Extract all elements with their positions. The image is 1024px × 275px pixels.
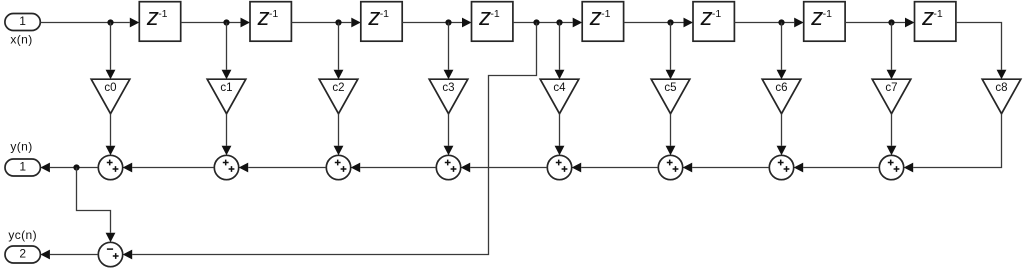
wire D7 to D8	[845, 18, 914, 28]
delay block D3 (z^-1)	[361, 2, 402, 42]
junction node yc feedback branch	[533, 19, 539, 25]
junction node tap6	[667, 19, 673, 25]
wire sum S8 to sum S7	[794, 163, 880, 173]
gain c1 (triangle)	[207, 79, 246, 114]
wire gain c1 to sum S2	[222, 114, 232, 156]
wire sum S2 to sum S1	[123, 163, 215, 173]
gain c0 (triangle)	[91, 79, 130, 114]
svg-text:c4: c4	[553, 82, 566, 94]
wire y(n) branch to sum S9 top input	[77, 168, 116, 243]
svg-text:-1: -1	[490, 8, 499, 20]
svg-text:z: z	[478, 4, 491, 31]
gain c5 (triangle)	[651, 79, 690, 114]
svg-text:z: z	[589, 4, 602, 31]
wire D1 to D2	[181, 18, 250, 28]
wire gain c8 to sum S8	[904, 114, 1002, 173]
svg-text:z: z	[700, 4, 713, 31]
wire tap8 to gain c7	[887, 23, 897, 80]
svg-text:c0: c0	[104, 82, 116, 94]
svg-text:-1: -1	[269, 8, 278, 20]
junction node tap2	[223, 19, 229, 25]
sum block S1 (+ +)	[98, 155, 122, 179]
wire tap2 to gain c1	[222, 23, 232, 80]
wire D6 to D7	[734, 18, 803, 28]
wire tap1 to gain c0	[106, 23, 116, 80]
delay block D4 (z^-1)	[472, 2, 513, 42]
wire yc feedback (tap to sum S9 right input)	[123, 23, 537, 260]
delay block D8 (z^-1)	[915, 2, 956, 42]
svg-text:z: z	[921, 4, 934, 31]
sum block S2 (+ +)	[214, 155, 238, 179]
svg-text:c7: c7	[885, 82, 897, 94]
wire tap7 to gain c6	[777, 23, 787, 80]
wire gain c3 to sum S4	[444, 114, 454, 156]
sum block S6 (+ +)	[658, 155, 682, 179]
wire gain c0 to sum S1	[106, 114, 116, 156]
svg-text:c3: c3	[442, 82, 454, 94]
label yc(n)	[8, 228, 37, 242]
svg-text:c6: c6	[775, 82, 787, 94]
wire sum S9 to yc(n) port	[40, 250, 98, 260]
sum block S7 (+ +)	[769, 155, 793, 179]
junction node y(n) branch	[73, 164, 79, 170]
wire tap4 to gain c3	[444, 23, 454, 80]
svg-text:-1: -1	[712, 8, 721, 20]
svg-text:-1: -1	[380, 8, 389, 20]
gain c3 (triangle)	[429, 79, 468, 114]
wire D4 to D5	[513, 18, 582, 28]
sum block S5 (+ +)	[547, 155, 571, 179]
delay block D5 (z^-1)	[582, 2, 623, 42]
wire gain c6 to sum S7	[777, 114, 787, 156]
junction node tap1	[107, 19, 113, 25]
delay block D6 (z^-1)	[693, 2, 734, 42]
junction node tap7	[778, 19, 784, 25]
label y(n)	[10, 140, 32, 154]
output port 1 y(n)	[5, 159, 40, 176]
junction node tap5	[556, 19, 562, 25]
output port 2 yc(n)	[5, 246, 40, 263]
wire sum S3 to sum S2	[239, 163, 327, 173]
junction node tap3	[335, 19, 341, 25]
wire tap5 to gain c4	[555, 23, 565, 80]
delay block D1 (z^-1)	[139, 2, 180, 42]
svg-text:c1: c1	[220, 82, 232, 94]
wire gain c4 to sum S5	[555, 114, 565, 156]
wire gain c7 to sum S8	[887, 114, 897, 156]
label x(n)	[10, 33, 32, 47]
junction node tap4	[445, 19, 451, 25]
sum block S8 (+ +)	[879, 155, 903, 179]
svg-text:1: 1	[19, 14, 26, 28]
gain c6 (triangle)	[762, 79, 801, 114]
svg-text:z: z	[146, 4, 159, 31]
svg-text:x(n): x(n)	[10, 33, 32, 47]
wire gain c2 to sum S3	[334, 114, 344, 156]
svg-text:2: 2	[19, 246, 26, 260]
junction node tap8	[888, 19, 894, 25]
svg-text:c8: c8	[995, 82, 1007, 94]
gain c4 (triangle)	[540, 79, 579, 114]
sum block S4 (+ +)	[436, 155, 460, 179]
gain c8 (triangle)	[982, 79, 1021, 114]
wire tap6 to gain c5	[666, 23, 676, 80]
wire gain c5 to sum S6	[666, 114, 676, 156]
svg-text:-1: -1	[933, 8, 942, 20]
delay block D7 (z^-1)	[804, 2, 845, 42]
svg-text:c2: c2	[332, 82, 344, 94]
wire D2 to D3	[291, 18, 360, 28]
svg-text:z: z	[367, 4, 380, 31]
svg-text:z: z	[810, 4, 823, 31]
wire sum S4 to sum S3	[351, 163, 437, 173]
wire tap3 to gain c2	[334, 23, 344, 80]
wire sum S5 to sum S4	[461, 163, 548, 173]
gain c2 (triangle)	[319, 79, 358, 114]
gain c7 (triangle)	[872, 79, 911, 114]
delay block D2 (z^-1)	[250, 2, 291, 42]
svg-text:1: 1	[19, 159, 26, 173]
svg-text:yc(n): yc(n)	[8, 228, 37, 242]
wire sum S6 to sum S5	[572, 163, 659, 173]
svg-text:y(n): y(n)	[10, 140, 32, 154]
sum block S9 (- +)	[98, 242, 122, 266]
wire D5 to D6	[624, 18, 693, 28]
svg-text:z: z	[257, 4, 270, 31]
wire sum S7 to sum S6	[683, 163, 770, 173]
svg-text:-1: -1	[823, 8, 832, 20]
sum block S3 (+ +)	[326, 155, 350, 179]
svg-text:-1: -1	[158, 8, 167, 20]
wire x(n) port to D1	[40, 18, 139, 28]
wire sum S1 to y(n) port	[40, 163, 98, 173]
input port 1 x(n)	[5, 14, 40, 31]
wire D8 to gain c8	[956, 23, 1007, 80]
svg-text:c5: c5	[664, 82, 676, 94]
wire D3 to D4	[402, 18, 471, 28]
svg-text:-1: -1	[601, 8, 610, 20]
